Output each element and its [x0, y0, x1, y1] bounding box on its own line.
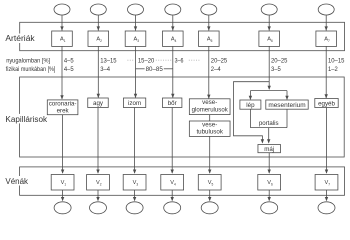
svg-text:fizikai munkában [%]: fizikai munkában [%]: [6, 66, 56, 73]
svg-text:1–2: 1–2: [328, 66, 338, 73]
svg-text:vese-: vese-: [202, 99, 217, 106]
svg-text:agy: agy: [93, 100, 104, 107]
svg-text:3–6: 3–6: [175, 57, 184, 64]
svg-text:4–5: 4–5: [64, 57, 74, 64]
svg-text:nyugalomban [%]: nyugalomban [%]: [6, 57, 50, 64]
svg-text:4–5: 4–5: [64, 66, 74, 73]
svg-text:vese-: vese-: [202, 121, 217, 128]
svg-text:15–20: 15–20: [138, 57, 155, 64]
svg-text:3–4: 3–4: [100, 66, 110, 73]
svg-text:portalis: portalis: [259, 120, 279, 127]
svg-text:10–15: 10–15: [328, 57, 345, 64]
svg-text:Kapillárisok: Kapillárisok: [5, 115, 47, 124]
svg-text:erek: erek: [57, 108, 70, 115]
svg-text:coronaria-: coronaria-: [49, 100, 77, 107]
svg-text:izom: izom: [128, 100, 141, 107]
svg-text:lép: lép: [246, 102, 255, 109]
svg-text:3–5: 3–5: [271, 66, 281, 73]
svg-text:glomerulusok: glomerulusok: [192, 107, 229, 114]
svg-text:20–25: 20–25: [211, 57, 228, 64]
svg-text:tubulusok: tubulusok: [196, 129, 223, 136]
svg-text:80–85: 80–85: [146, 66, 164, 73]
svg-text:2–4: 2–4: [211, 66, 221, 73]
svg-text:13–15: 13–15: [100, 57, 117, 64]
svg-text:20–25: 20–25: [271, 57, 288, 64]
svg-text:máj: máj: [264, 146, 274, 153]
svg-text:egyéb: egyéb: [318, 100, 335, 107]
svg-text:mesenterium: mesenterium: [268, 102, 305, 109]
svg-text:Vénák: Vénák: [5, 177, 28, 186]
svg-text:Artériák: Artériák: [5, 34, 34, 43]
svg-text:bőr: bőr: [168, 100, 177, 107]
